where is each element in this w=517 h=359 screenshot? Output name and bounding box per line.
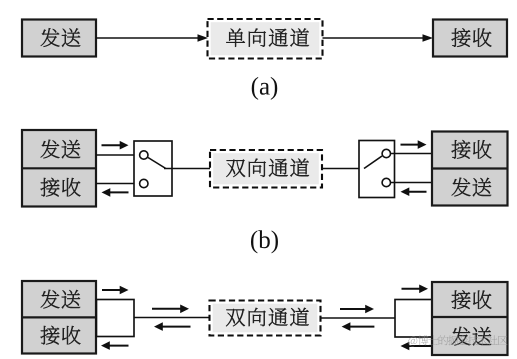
box pair right (b): 接收 over 发送 [432,132,508,206]
wire switch to channel (b left) [164,168,210,170]
switch box left (b) [134,141,172,196]
watermark @博士的掘金技术社区 [408,335,507,346]
switch lever right (b) [364,156,382,169]
switch contact bottom-left circle [140,179,148,187]
wire channel to right switch (b) [322,168,366,170]
switch box right (b) [359,141,395,198]
wire 发送 to switch top contact [96,154,139,156]
box pair left (c): 发送 over 接收 [22,281,96,354]
arrow right (b left top) [102,141,129,150]
svg-text:(a): (a) [251,74,279,101]
switch contact top-left circle [140,151,148,159]
junction box right (c) [395,300,432,338]
switch lever left (b) [148,158,166,169]
arrow right above wire (c left) [152,305,189,314]
arrow right (c left top) [102,286,129,295]
arrow right (b right top) [401,140,427,149]
wire with arrow: channel to receiver (a) [323,34,434,41]
arrow right above wire (c right) [340,305,374,314]
wire switch to 发送 (b right bottom) [391,182,432,184]
switch contact top-right circle [382,149,390,157]
dashed box two-way channel (c) 双向通道 [210,301,321,336]
box pair right (c): 接收 over 发送 [432,282,508,355]
switch contact bottom-right circle [382,178,390,186]
svg-text:(b): (b) [250,227,279,254]
arrow left below wire (c left) [154,322,191,331]
junction box left (c) [97,300,135,337]
arrow right (c right top) [402,285,429,294]
wire with arrow: sender to channel (a) [96,34,208,41]
arrow left (c right bottom) [401,342,433,351]
arrow left (b right bottom) [401,187,427,196]
arrow left (b left bottom) [102,188,129,197]
wire channel to junction (c right) [321,317,396,319]
wire switch to 接收 (b right top) [391,153,432,155]
box receiver (a) 接收 [433,20,507,57]
box sender (a) 发送 [22,20,96,57]
box pair left (b): 发送 over 接收 [22,130,96,207]
wire junction to channel (c left) [134,317,210,319]
arrow left below wire (c right) [342,322,375,331]
arrow left (c left bottom) [101,341,129,350]
wire 接收 to switch bottom contact [96,183,139,185]
dashed box one-way channel 单向通道 [208,19,323,59]
dashed box two-way channel (b) 双向通道 [210,150,322,188]
